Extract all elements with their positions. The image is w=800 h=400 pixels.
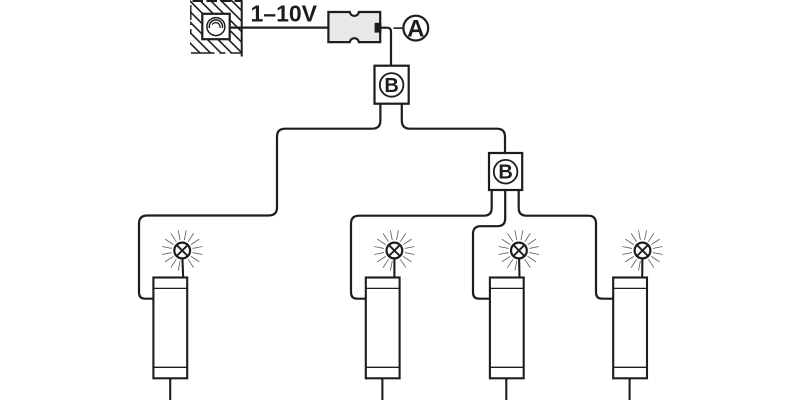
- luminaire 4 ballast: [613, 278, 647, 379]
- wire luminaire 2 tail: [381, 379, 383, 400]
- wire B1 left branch to luminaire 1: [139, 104, 380, 299]
- wire luminaire 4 tail: [629, 379, 631, 400]
- box B1: [375, 66, 409, 104]
- svg-text:B: B: [384, 75, 398, 97]
- wire B2 left out to luminaire 2: [351, 190, 492, 299]
- svg-text:1–10V: 1–10V: [251, 1, 318, 27]
- luminaire 2 ballast: [366, 278, 400, 379]
- wire control unit to box B1: [381, 28, 391, 66]
- wall boundary (chain line top/left/bottom): [191, 1, 241, 53]
- control unit (converter block with notches): [328, 12, 380, 42]
- wire dimmer to control unit: [229, 27, 329, 29]
- svg-text:B: B: [498, 162, 512, 184]
- dimmer (rotary control in wall): [202, 14, 229, 39]
- wire luminaire 1 tail: [169, 379, 171, 400]
- lamp 1 (starburst): [162, 230, 202, 278]
- lamp 4 (starburst): [622, 230, 662, 278]
- wall face (solid right border): [241, 0, 243, 57]
- lamp 2 (starburst): [374, 230, 414, 278]
- wall (hatched section): [142, 0, 305, 63]
- wire B1 right branch to box B2: [402, 104, 505, 154]
- wire B2 right out to luminaire 4: [519, 190, 615, 299]
- wire B2 middle out to luminaire 3: [473, 190, 505, 299]
- luminaire 3 ballast: [490, 278, 524, 379]
- box B2: [489, 153, 522, 190]
- luminaire 1 ballast: [153, 278, 187, 379]
- lamp 3 (starburst): [499, 230, 539, 278]
- node A: [403, 16, 428, 43]
- svg-text:A: A: [407, 16, 424, 43]
- terminal (black) on control unit: [375, 23, 382, 33]
- wire luminaire 3 tail: [505, 379, 507, 400]
- leader line to node A: [394, 27, 403, 29]
